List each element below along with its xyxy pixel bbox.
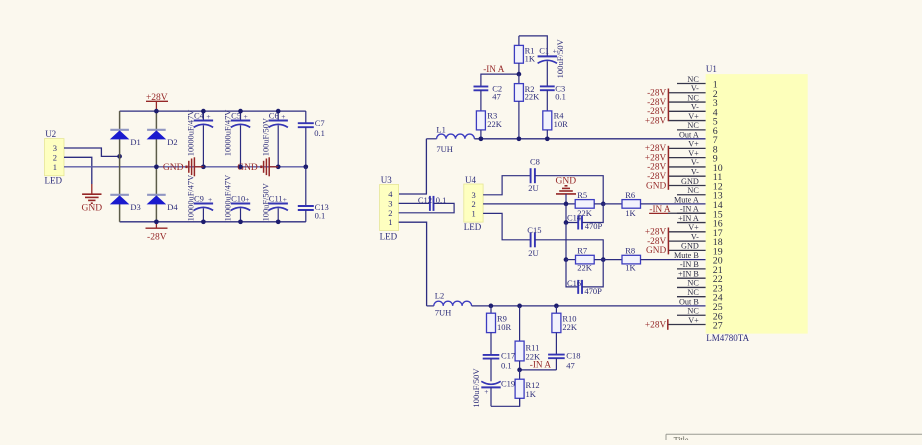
wire R8 to U1 pin20 [641,259,706,261]
junction bottom rail at D4 [154,219,159,224]
pin 3 NC [668,93,717,109]
svg-text:-IN A: -IN A [483,64,505,74]
pin 6 NC [677,121,718,137]
pin 26 NC [677,307,723,323]
pin 20 Mute B [674,251,723,267]
svg-text:1K: 1K [525,53,536,63]
svg-text:+: + [244,112,248,121]
svg-text:L1: L1 [436,125,445,135]
junction top rail C4 [201,109,206,114]
resistor R5 [575,190,594,218]
inductor L2 [427,290,472,317]
capacitor C5 [224,110,251,167]
pin 4 V- [668,103,717,119]
svg-text:LED: LED [464,222,482,232]
svg-text:-28V: -28V [147,233,167,243]
op-amp U1 LM4780TA body [706,64,808,343]
junction R1 R2 [517,72,522,77]
power -28V at pin 18 [647,237,666,247]
resistor R2 [514,74,540,139]
capacitor C18 [548,350,580,370]
power bar pins 2-5 [667,89,669,122]
svg-text:U2: U2 [45,129,56,139]
svg-text:D4: D4 [167,202,178,212]
junction top rail at D2 [154,109,159,114]
svg-text:R6: R6 [625,190,635,200]
wire R6 to U1 pin14 [641,203,706,205]
pin 8 V+ [668,140,717,156]
svg-text:C11: C11 [269,194,283,204]
svg-text:1K: 1K [526,389,537,399]
capacitor C14 [566,204,603,231]
svg-text:V-: V- [691,158,699,167]
resistor R12 [515,370,540,406]
wire U2 pin2 to ground [64,157,92,193]
connector U2 [45,129,65,185]
resistor R11 [515,306,541,370]
svg-text:100uF/50V: 100uF/50V [261,183,270,221]
wire U2 pin1 gnd rail [64,166,306,168]
pin 5 V+ [668,112,717,128]
svg-text:NC: NC [687,121,699,130]
svg-text:22K: 22K [562,322,578,332]
junction R9 rail [489,304,494,309]
resistor R1 [514,36,535,74]
capacitor C12 [399,195,455,213]
svg-text:R7: R7 [577,245,587,255]
inductor L1 [426,125,474,154]
svg-text:D2: D2 [167,137,177,147]
power GND at pin 12 [646,181,666,191]
connector U3 [380,175,399,241]
pin 9 V+ [668,149,717,165]
svg-text:Mute A: Mute A [674,195,699,204]
svg-text:10000uF/47V: 10000uF/47V [224,175,233,222]
svg-text:100uF/50V: 100uF/50V [261,118,270,156]
svg-text:1: 1 [388,217,392,227]
svg-text:10000uF/47V: 10000uF/47V [187,110,196,157]
capacitor C7 [298,111,325,167]
pin 12 GND [668,177,722,193]
resistor R4 [543,110,568,138]
svg-text:+: + [245,195,249,204]
svg-text:LED: LED [45,176,63,186]
svg-text:GND: GND [681,177,699,186]
junction gnd R5 [564,202,569,207]
power +28V top [146,93,168,111]
capacitor C19 [471,368,515,408]
svg-text:U1: U1 [706,64,717,74]
pin 11 V- [668,168,722,184]
node -IN A at pin 15 [649,204,671,214]
capacitor C10 [224,175,251,222]
power +28V at pin 5 [645,116,667,126]
node -IN A top [481,64,519,87]
capacitor C13 [298,167,329,222]
wire R7 to R8 [594,259,622,261]
capacitor C16 [566,260,603,297]
pin 16 +IN A [677,214,723,230]
svg-text:V-: V- [691,232,699,241]
svg-text:NC: NC [687,307,699,316]
pin 15 -IN A [668,205,723,221]
diode D4 [147,195,179,212]
wire left vertical to R7 [565,223,567,260]
svg-text:-IN A: -IN A [530,360,552,370]
svg-text:1K: 1K [625,263,636,273]
pin 24 NC [677,288,723,304]
svg-text:C8: C8 [530,157,540,167]
svg-text:C17: C17 [501,350,515,360]
junction R2 rail [517,136,522,141]
junction R4 rail [545,136,550,141]
svg-text:+: + [283,195,287,204]
wire bottom rail -28V [120,221,306,223]
capacitor C8 [483,157,603,204]
svg-text:-IN B: -IN B [680,260,699,269]
svg-text:47: 47 [492,92,501,102]
svg-text:NC: NC [687,75,699,84]
power ground symbol GND 1 [163,157,203,176]
diode D1 [110,130,141,147]
svg-text:C14: C14 [567,213,582,223]
svg-text:7UH: 7UH [436,144,453,154]
diode D3 [110,195,141,212]
wire U2 pin3 to bridge node [64,148,118,156]
wire U3 pin1 to L2 [399,222,427,306]
svg-text:100uF/50V: 100uF/50V [555,38,565,78]
capacitor C15 [483,213,603,259]
junction bottom rail C11 [276,219,281,224]
svg-text:22K: 22K [525,92,541,102]
junction bottom rail C10 [238,219,243,224]
power -28V bottom [146,222,168,243]
pin 14 Mute A [674,195,723,211]
svg-text:GND: GND [556,176,577,186]
svg-text:+: + [281,112,285,121]
svg-text:100uF/50V: 100uF/50V [471,368,481,408]
svg-text:1: 1 [472,208,476,218]
svg-text:C18: C18 [566,350,580,360]
junction gnd rail C5 [238,164,243,169]
svg-text:V-: V- [691,168,699,177]
svg-text:0.1: 0.1 [314,128,325,138]
junction R10 rail [554,304,559,309]
resistor R6 [622,190,641,218]
svg-text:+28V: +28V [645,320,667,330]
resistor R9 [487,306,512,355]
svg-text:C16: C16 [567,278,581,288]
pin 7 Out A [679,130,718,146]
svg-text:470P: 470P [584,286,602,296]
power -28V at pin 2 [647,89,666,99]
title block [666,434,922,444]
svg-text:C15: C15 [527,225,541,235]
svg-text:L2: L2 [435,290,444,300]
resistor R7 [566,245,594,272]
svg-text:Out B: Out B [679,297,699,306]
svg-text:GND: GND [163,163,184,173]
power bar pins 17-19 [667,228,669,255]
junction gnd rail at D2/D4 [154,164,159,169]
svg-text:-IN A: -IN A [649,204,671,214]
capacitor C1 [538,38,566,86]
pin 1 NC [677,75,718,91]
junction R11 R12 [517,368,522,373]
ground GND at U2 pin2 [82,194,103,213]
capacitor C3 [540,84,566,111]
svg-text:10R: 10R [554,119,569,129]
svg-text:NC: NC [687,186,699,195]
svg-text:+IN A: +IN A [678,214,699,223]
svg-text:27: 27 [713,321,723,332]
power GND at pin 19 [646,246,666,256]
svg-text:R5: R5 [577,190,587,200]
wire R1 top to C1 [519,36,547,56]
power -28V at pin 11 [647,172,666,182]
pin 13 NC [677,186,723,202]
capacitor C17 [483,350,515,381]
svg-text:+28V: +28V [645,116,667,126]
svg-text:V-: V- [691,103,699,112]
svg-text:C19: C19 [501,378,515,388]
wire Out A rail to U1 pin7 [474,138,705,140]
svg-text:+: + [206,112,210,121]
svg-text:V+: V+ [688,112,699,121]
capacitor C11 [261,183,288,222]
svg-text:22K: 22K [487,119,503,129]
wire U4 pin2 to R5 [483,203,575,205]
junction R3 rail [479,136,484,141]
svg-text:0.1: 0.1 [315,211,326,221]
svg-text:GND: GND [646,246,666,256]
wire L1 to U3 pin4 [399,139,427,194]
junction R11 rail [517,304,522,309]
svg-text:1K: 1K [625,208,636,218]
power +28V at pin 17 [645,228,667,238]
junction bottom rail C9 [201,219,206,224]
svg-text:U4: U4 [465,175,476,185]
pin 10 V- [668,158,722,174]
svg-text:D1: D1 [130,137,140,147]
pin 27 V+ [668,316,722,332]
power -28V at pin 3 [647,98,666,108]
svg-text:+: + [208,195,212,204]
svg-text:LED: LED [380,232,398,242]
svg-text:GND: GND [237,163,258,173]
junction R5 R6 [601,202,606,207]
capacitor C6 [261,111,288,167]
pin 21 -IN B [677,260,723,276]
power +28V at pin 8 [645,144,667,154]
pin 18 V- [668,232,722,248]
svg-text:0.1: 0.1 [555,92,566,102]
svg-text:GND: GND [82,204,103,214]
svg-text:LM4780TA: LM4780TA [706,333,749,343]
wire bridge left vertical [119,111,121,222]
svg-text:2U: 2U [528,183,538,193]
power +28V at pin 9 [645,153,667,163]
svg-text:V+: V+ [688,140,699,149]
svg-text:V-: V- [691,84,699,93]
svg-text:GND: GND [681,242,699,251]
svg-text:10000uF/47V: 10000uF/47V [187,175,196,222]
wire top rail +28V [120,110,306,112]
svg-text:0.1: 0.1 [501,360,512,370]
wire bridge right vertical [155,111,157,222]
svg-text:10000uF/47V: 10000uF/47V [224,110,233,157]
svg-text:D3: D3 [130,202,140,212]
junction gnd rail C7 [303,164,308,169]
power ground symbol GND 2 [237,157,278,176]
svg-text:-IN A: -IN A [680,205,699,214]
connector U4 [464,175,483,232]
pin 19 GND [668,242,722,258]
svg-text:470P: 470P [585,221,603,231]
svg-text:NC: NC [687,93,699,102]
svg-text:C12: C12 [418,195,432,205]
junction gnd rail C6 [276,164,281,169]
svg-text:+IN B: +IN B [678,269,699,278]
svg-text:C10: C10 [231,194,245,204]
node -IN A bottom [520,360,557,370]
wire R5 to R6 [594,203,622,205]
svg-text:R8: R8 [625,245,635,255]
svg-text:7UH: 7UH [435,308,452,318]
junction C14 left [564,220,569,225]
svg-text:V+: V+ [688,223,699,232]
wire C19 R12 bottom [491,398,520,406]
svg-text:C7: C7 [315,118,325,128]
resistor R8 [622,245,641,272]
capacitor C4 [187,110,214,167]
power bar pin 27 [667,319,669,330]
svg-text:+: + [484,387,488,396]
pin 23 NC [677,279,723,295]
pin 17 V+ [668,223,722,239]
svg-text:22K: 22K [577,263,593,273]
pin 22 +IN B [677,269,723,285]
svg-text:Out A: Out A [679,130,699,139]
pin 2 V- [668,84,717,100]
svg-text:GND: GND [646,181,666,191]
svg-text:1: 1 [53,162,57,172]
junction top rail C5 [238,109,243,114]
ground GND above R5 [556,176,577,204]
svg-text:NC: NC [687,288,699,297]
junction C15 R7 [564,257,569,262]
capacitor C9 [187,175,214,222]
power bar pins 8-12 [667,146,669,190]
svg-text:NC: NC [687,279,699,288]
junction gnd rail C4 [201,164,206,169]
junction R7 R8 [601,257,606,262]
power +28V at pin 27 [645,320,667,330]
svg-text:2U: 2U [528,248,538,258]
svg-text:U3: U3 [381,175,392,185]
svg-text:V+: V+ [688,316,699,325]
svg-text:47: 47 [566,360,575,370]
svg-text:Mute B: Mute B [674,251,699,260]
power -28V at pin 4 [647,107,666,117]
resistor R3 [476,110,502,138]
pin 25 Out B [679,297,723,313]
wire Out B rail to U1 pin25 [472,305,706,307]
svg-text:10R: 10R [497,322,512,332]
diode D2 [147,130,178,147]
power -28V at pin 10 [647,163,666,173]
resistor R10 [552,306,578,355]
svg-text:C1: C1 [539,46,549,56]
svg-text:Title: Title [674,436,689,440]
svg-text:V+: V+ [688,149,699,158]
junction top rail C6 [276,109,281,114]
capacitor C2 [474,84,503,111]
junction pin3-bridge [117,154,122,159]
svg-text:0.1: 0.1 [436,195,447,205]
